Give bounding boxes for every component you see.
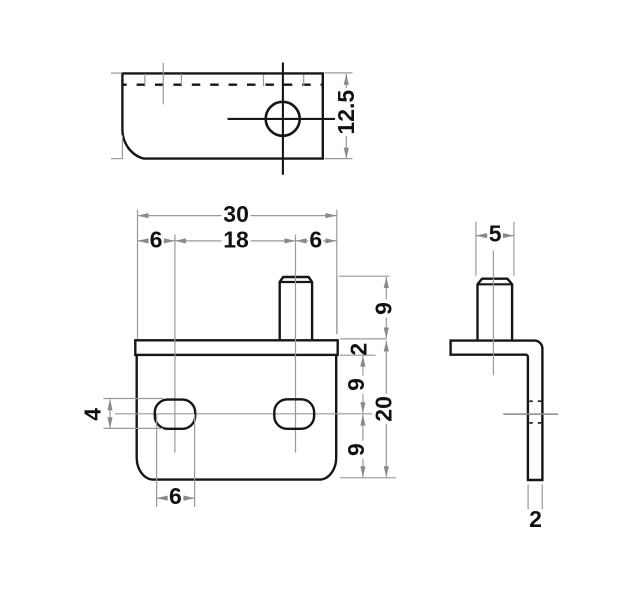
hidden slot edge tick right-a: [263, 75, 265, 86]
pin-top extension line: [339, 275, 390, 277]
dim 6 right text: [308, 227, 323, 253]
dim 6 left line: [138, 240, 175, 242]
svg-text:18: 18: [223, 227, 249, 253]
right corner projection line: [336, 275, 338, 334]
dim 6 bottom extension line right: [194, 414, 196, 507]
pin and right slot centerline vertical: [295, 235, 297, 453]
side flange and leg outline: [451, 341, 543, 480]
dim 30 text: [222, 201, 251, 227]
top view outline: [122, 73, 322, 158]
flange-top extension line: [340, 338, 387, 340]
dim 6 bottom line: [157, 497, 195, 499]
svg-text:6: 6: [169, 483, 182, 509]
svg-text:6: 6: [309, 227, 322, 253]
dim 12.5 text: [333, 88, 359, 136]
dim 12.5 line: [345, 74, 347, 159]
dim 9 lower text: [343, 441, 369, 459]
top view hole vertical centerline: [282, 63, 284, 175]
top view slot centerline: [162, 63, 164, 104]
left slot: [155, 400, 195, 429]
body-bottom extension line: [340, 477, 396, 479]
svg-text:2: 2: [529, 506, 542, 532]
pin (front): [280, 277, 312, 340]
svg-text:5: 5: [489, 221, 502, 247]
dim 4 text: [80, 408, 106, 421]
dim 2 flange text: [346, 343, 372, 356]
top view hole circle (pin): [266, 102, 300, 136]
dim 5 extension line left: [475, 222, 477, 276]
dim 18 text: [222, 227, 251, 253]
svg-text:9: 9: [343, 378, 369, 391]
dim 30 extension line left: [137, 210, 139, 339]
dim 12.5 extension line top: [325, 72, 353, 74]
dim 2 leg extension line right: [541, 484, 543, 509]
svg-text:2: 2: [346, 343, 372, 356]
dim 30 line: [138, 215, 337, 217]
hidden slot edge tick left-b: [180, 74, 182, 85]
inner dim line (2 / 9 / 9): [362, 356, 364, 414]
front flange plate: [135, 340, 337, 355]
pin (side): [478, 279, 513, 341]
svg-text:9: 9: [343, 443, 369, 456]
dim 9 upper text: [343, 376, 369, 394]
dim 6 left text: [149, 227, 164, 253]
hidden slot edge tick left-a: [144, 74, 146, 85]
svg-text:20: 20: [370, 396, 396, 422]
outer dim line (9 / 20): [385, 277, 387, 339]
dim 4 extension line bottom: [103, 427, 163, 429]
svg-text:9: 9: [371, 302, 397, 315]
dim 6 bottom extension line left: [156, 414, 158, 507]
pin chamfer shoulder line: [280, 281, 312, 283]
dim 4 extension line top: [103, 398, 163, 400]
dim 5 line: [476, 235, 514, 237]
hidden slot edge tick right-b: [303, 75, 305, 86]
hidden slot edge dashes lower: [529, 422, 533, 424]
dim 12.5 extension line bottom: [325, 158, 353, 160]
front body plate: [137, 355, 337, 480]
dim 5 extension line right: [513, 222, 515, 276]
dim 2 leg extension line left: [527, 484, 529, 509]
dim 20 text: [370, 394, 396, 424]
dim 4 line: [109, 399, 111, 428]
flange-bottom extension line: [340, 354, 376, 356]
dim 6 bottom text: [168, 483, 183, 509]
left slot centerline vertical: [174, 235, 176, 453]
top view left stub top: [111, 72, 122, 74]
dim 9 pin-height text: [371, 300, 397, 318]
svg-text:30: 30: [223, 201, 249, 227]
svg-text:4: 4: [80, 408, 106, 421]
dim 5 text: [488, 221, 503, 247]
hidden slot edge dashes upper: [529, 400, 533, 402]
dim 18 line: [175, 240, 296, 242]
slots horizontal centerline: [115, 413, 376, 415]
pin chamfer shoulder line (side): [478, 283, 513, 285]
top view hidden bend line (dashed): [123, 83, 322, 85]
top view left stub bottom: [111, 158, 123, 160]
top view left corner projection line: [121, 136, 123, 159]
slot horizontal centerline (side): [503, 413, 558, 415]
svg-text:12.5: 12.5: [333, 90, 359, 135]
dim 30 extension line right: [336, 210, 338, 334]
top view hole horizontal centerline: [228, 118, 338, 120]
pin centerline (side): [492, 251, 494, 376]
dim 6 right line: [296, 240, 337, 242]
svg-text:6: 6: [150, 227, 163, 253]
right slot: [274, 399, 314, 429]
